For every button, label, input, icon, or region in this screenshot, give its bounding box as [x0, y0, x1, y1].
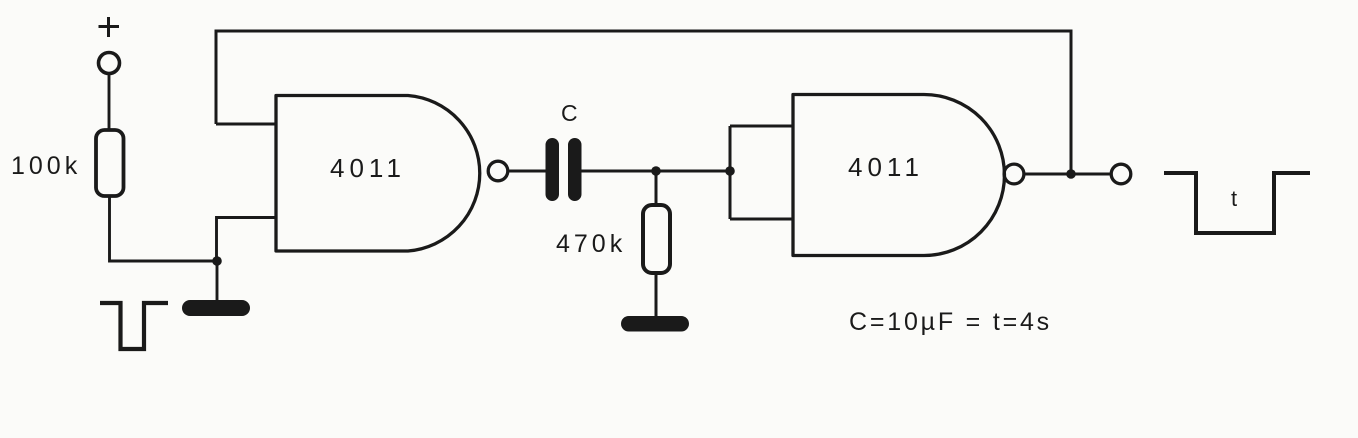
- wire gate1 input 1: [216, 123, 276, 126]
- svg-text:C: C: [561, 100, 578, 126]
- gate U2 output bubble: [1004, 164, 1024, 184]
- output pulse waveform: [1164, 173, 1310, 233]
- node C junction dot: [725, 166, 735, 176]
- capacitor C plate right: [568, 138, 582, 201]
- wire node A to ground: [216, 261, 219, 302]
- power terminal circle: [99, 53, 120, 74]
- wire resistor to node A: [110, 196, 218, 261]
- power terminal plus sign: [99, 17, 120, 37]
- input trigger pulse symbol: [100, 303, 168, 349]
- wire bubble to output terminal: [1024, 173, 1111, 176]
- top feedback wire: [216, 31, 1071, 174]
- wire capacitor to node C: [581, 170, 730, 173]
- svg-text:100k: 100k: [11, 152, 81, 180]
- wire bubble to capacitor: [508, 170, 546, 173]
- op-amp gate U1 4011 NAND body: [276, 96, 480, 252]
- op-amp gate U2 4011 NAND body: [793, 95, 1004, 256]
- capacitor C plate left: [546, 138, 560, 201]
- wire terminal to resistor: [108, 74, 111, 130]
- svg-text:C=10µF = t=4s: C=10µF = t=4s: [849, 308, 1052, 336]
- svg-text:470k: 470k: [556, 230, 626, 258]
- wire node B to resistor R2: [655, 171, 658, 206]
- gate U2 tied input loop: [730, 126, 793, 219]
- resistor R1 body: [96, 130, 124, 196]
- wire node A to gate1 input 2: [217, 218, 277, 262]
- ground 2 bar: [621, 316, 689, 332]
- node A junction dot: [212, 256, 222, 266]
- gate U1 output bubble: [488, 161, 508, 181]
- output terminal circle: [1111, 164, 1131, 184]
- wire resistor R2 to ground: [655, 273, 658, 318]
- resistor R2 body: [643, 205, 670, 273]
- ground 1 bar: [182, 300, 250, 316]
- svg-text:4011: 4011: [330, 153, 406, 183]
- svg-text:4011: 4011: [848, 152, 924, 182]
- output node junction dot: [1066, 169, 1076, 179]
- svg-text:t: t: [1231, 186, 1237, 211]
- node B junction dot: [651, 166, 661, 176]
